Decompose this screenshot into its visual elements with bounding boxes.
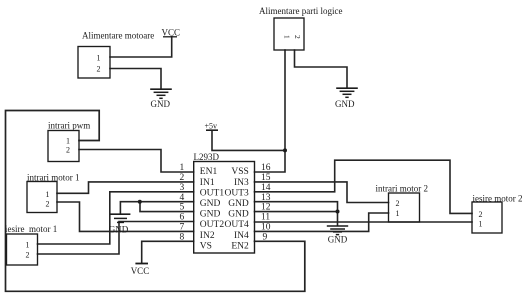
svg-text:2: 2 (97, 65, 101, 74)
svg-text:1: 1 (179, 163, 184, 173)
svg-text:7: 7 (179, 223, 184, 233)
svg-text:1: 1 (396, 209, 400, 218)
svg-text:L293D: L293D (194, 152, 220, 162)
svg-text:GND: GND (228, 210, 249, 220)
svg-text:+5v: +5v (205, 122, 218, 131)
svg-text:1: 1 (66, 137, 70, 146)
svg-text:EN2: EN2 (231, 241, 249, 251)
svg-text:1: 1 (26, 241, 30, 250)
svg-text:Alimentare motoare: Alimentare motoare (82, 31, 154, 41)
svg-text:OUT2: OUT2 (200, 220, 225, 230)
svg-text:14: 14 (261, 183, 271, 193)
svg-text:GND: GND (335, 99, 355, 109)
svg-text:GND: GND (109, 225, 129, 235)
svg-text:GND: GND (151, 99, 171, 109)
svg-text:10: 10 (261, 223, 271, 233)
svg-text:1: 1 (97, 54, 101, 63)
svg-text:intrari pwm: intrari pwm (48, 121, 90, 131)
svg-text:11: 11 (261, 213, 270, 223)
svg-text:3: 3 (179, 183, 184, 193)
svg-text:2: 2 (179, 173, 184, 183)
svg-text:VSS: VSS (231, 167, 248, 177)
svg-text:2: 2 (46, 200, 50, 209)
svg-text:iesire motor 2: iesire motor 2 (473, 194, 523, 204)
svg-text:2: 2 (479, 210, 483, 219)
svg-text:IN3: IN3 (234, 178, 249, 188)
svg-text:VS: VS (200, 241, 212, 251)
svg-text:iesire motor 1: iesire motor 1 (5, 224, 57, 234)
svg-text:IN1: IN1 (200, 178, 215, 188)
svg-text:GND: GND (328, 235, 348, 245)
svg-text:15: 15 (261, 173, 271, 183)
svg-text:GND: GND (200, 210, 221, 220)
svg-text:2: 2 (396, 199, 400, 208)
svg-text:9: 9 (263, 232, 268, 242)
svg-text:2: 2 (293, 35, 302, 39)
svg-text:OUT1: OUT1 (200, 188, 225, 198)
svg-text:2: 2 (26, 251, 30, 260)
svg-text:6: 6 (179, 213, 184, 223)
svg-text:IN4: IN4 (234, 231, 249, 241)
svg-text:1: 1 (282, 35, 291, 39)
svg-text:intrari motor 2: intrari motor 2 (376, 184, 429, 194)
svg-text:2: 2 (66, 146, 70, 155)
svg-text:OUT4: OUT4 (225, 220, 250, 230)
svg-text:5: 5 (179, 203, 184, 213)
svg-text:12: 12 (261, 203, 271, 213)
svg-text:1: 1 (479, 220, 483, 229)
svg-text:13: 13 (261, 193, 271, 203)
svg-text:intrari motor 1: intrari motor 1 (27, 173, 80, 183)
svg-text:IN2: IN2 (200, 231, 215, 241)
svg-text:VCC: VCC (162, 28, 181, 38)
svg-text:16: 16 (261, 163, 271, 173)
svg-text:GND: GND (228, 199, 249, 209)
svg-text:8: 8 (179, 232, 184, 242)
svg-text:Alimentare parti logice: Alimentare parti logice (259, 6, 342, 16)
svg-text:4: 4 (179, 193, 184, 203)
svg-text:GND: GND (200, 199, 221, 209)
svg-text:VCC: VCC (131, 266, 150, 276)
svg-text:EN1: EN1 (200, 167, 218, 177)
svg-text:1: 1 (46, 190, 50, 199)
svg-text:OUT3: OUT3 (225, 188, 250, 198)
